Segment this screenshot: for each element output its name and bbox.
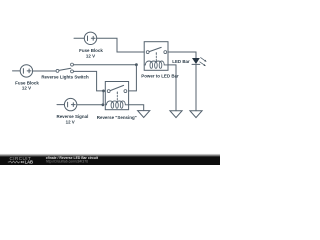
svg-text:12 V: 12 V — [22, 86, 31, 91]
svg-text:Reverse "Sensing": Reverse "Sensing" — [97, 115, 137, 120]
svg-text:12 V: 12 V — [86, 53, 95, 58]
label V1 — [79, 48, 103, 58]
svg-text:Power to LED Bar: Power to LED Bar — [141, 74, 179, 79]
wire V1 to relay K1 switch pin — [97, 38, 145, 52]
switch S1 Reverse Lights Switch — [56, 68, 73, 73]
junction dot coil feed — [135, 63, 138, 66]
svg-text:http://circuitlab.com/c84t376: http://circuitlab.com/c84t376 — [46, 160, 88, 164]
wire junction branch — [102, 91, 104, 105]
svg-text:LAB: LAB — [25, 159, 33, 164]
label V3 — [56, 114, 88, 125]
wire K2 switch to K1 coil — [129, 65, 137, 91]
svg-text:Reverse Lights Switch: Reverse Lights Switch — [41, 75, 89, 80]
voltage source V1 Fuse Block top — [84, 32, 96, 44]
wire K1 switch to LED — [168, 52, 196, 58]
ground G1 — [138, 111, 150, 118]
svg-text:LED Bar: LED Bar — [172, 59, 190, 64]
svg-text:Fuse Block: Fuse Block — [15, 80, 39, 85]
wire V3 left stub — [57, 104, 64, 106]
wire K1 coil to ground G2 — [168, 65, 176, 111]
wire V2 left stub — [13, 70, 21, 72]
wire node to relay K1 coil — [74, 64, 137, 66]
relay K1 Power to LED Bar — [144, 42, 168, 71]
footer text — [46, 156, 99, 164]
LED D1 LED Bar — [192, 58, 207, 67]
wire V1 left stub — [74, 37, 84, 39]
ground G3 — [190, 111, 202, 118]
wire LED cathode to ground G3 — [195, 64, 197, 110]
wire V2 to switch S1 — [33, 70, 56, 72]
junction dot K2 coil feed — [102, 103, 105, 106]
svg-text:Reverse Signal: Reverse Signal — [56, 114, 88, 119]
svg-text:12 V: 12 V — [66, 120, 75, 125]
node open terminal above switch — [71, 63, 74, 66]
junction dot K2 switch feed — [102, 90, 105, 93]
voltage source V3 Reverse Signal — [64, 98, 76, 110]
footer watermark bar — [0, 154, 220, 165]
CircuitLab logo — [8, 156, 33, 165]
voltage source V2 Fuse Block left — [20, 65, 32, 77]
relay K2 Reverse Sensing — [105, 82, 128, 110]
svg-text:Fuse Block: Fuse Block — [79, 48, 103, 53]
label V2 — [15, 80, 39, 90]
wire V3 to K2 coil — [77, 104, 103, 106]
wire K2 coil to ground G1 — [129, 105, 144, 111]
ground G2 — [170, 111, 182, 118]
wire S1 to relay K2 switch — [74, 71, 104, 91]
